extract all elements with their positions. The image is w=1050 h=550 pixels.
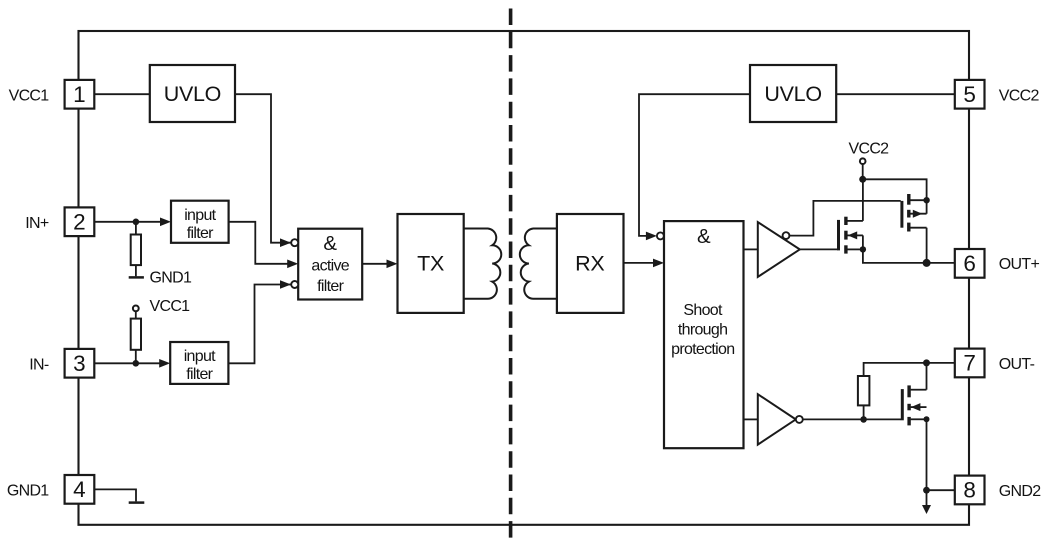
svg-text:8: 8 bbox=[963, 478, 976, 503]
arrowhead into shoot-through input B bbox=[653, 259, 664, 268]
ground arrow at GND2 bbox=[926, 490, 928, 506]
pin 7 bbox=[955, 349, 985, 378]
wire shoot block to buffer 1 bbox=[744, 248, 758, 250]
wire inverter output to NMOS Q3 gate bbox=[803, 418, 901, 420]
isolation barrier (dashed) bbox=[509, 9, 513, 541]
wire pin3 to input filter 2 bbox=[94, 362, 161, 364]
node PMOS source bbox=[923, 197, 929, 203]
transistor Q1 channel segments bbox=[844, 217, 847, 254]
node GND2 bbox=[923, 487, 930, 494]
transistor Q3 body arrow bbox=[911, 403, 921, 411]
wire GND2 node to pin8 bbox=[927, 489, 956, 491]
wire OUT+ node to pin6 bbox=[927, 262, 955, 264]
resistor R2 bbox=[131, 319, 141, 350]
wire buffer1 output to NMOS Q1 gate bbox=[800, 248, 837, 250]
svg-text:GND1: GND1 bbox=[150, 270, 192, 287]
wire node up to resistor R3 bbox=[863, 405, 865, 419]
arrowhead into AND filter input A bbox=[280, 238, 291, 247]
pin 4 bbox=[65, 475, 95, 504]
arrowhead into input filter 2 bbox=[159, 359, 170, 368]
transistor Q3 drain stub bbox=[911, 389, 927, 391]
svg-text:VCC2: VCC2 bbox=[999, 87, 1040, 104]
wire VCC1 to resistor R2 bbox=[135, 311, 137, 318]
transistor Q1 source stub bbox=[847, 248, 863, 250]
transistor Q3 source stub bbox=[911, 418, 927, 420]
pin 1 bbox=[65, 80, 95, 109]
bubble inverter B2 output bbox=[796, 416, 803, 423]
wire pin1 to UVLO1 bbox=[94, 93, 150, 95]
transistor Q2 source stub bbox=[910, 199, 926, 201]
wire R3 to OUT- rail bbox=[864, 363, 927, 376]
bubble AND filter input A bbox=[291, 239, 298, 246]
wire UVLO2 output elbow to shoot-through input A bbox=[639, 94, 750, 236]
bubble shoot-through input A bbox=[657, 232, 664, 239]
wire buffer1 inverted tap to PMOS gate bbox=[789, 201, 900, 236]
pin 3 bbox=[65, 349, 95, 378]
svg-text:Shoot: Shoot bbox=[683, 302, 723, 319]
node Q3 source bbox=[924, 416, 930, 422]
wire R1 to ground bbox=[135, 265, 137, 276]
svg-text:protection: protection bbox=[671, 341, 734, 358]
bubble inverted tap of buffer B1 bbox=[783, 232, 790, 239]
node Q1 source bbox=[860, 246, 866, 252]
input filter block F1 bbox=[171, 201, 229, 243]
wire R2 to pin3 node bbox=[135, 350, 137, 364]
ground GND1 symbol at pin4 bbox=[129, 501, 145, 504]
node pin3 junction bbox=[133, 360, 140, 367]
svg-text:TX: TX bbox=[417, 251, 444, 275]
transistor Q2 (PMOS) gate bar bbox=[900, 201, 903, 228]
resistor R1 bbox=[131, 235, 141, 266]
svg-text:VCC1: VCC1 bbox=[9, 87, 50, 104]
node OUT+ bbox=[923, 259, 931, 267]
wire Q1 source down to OUT+ rail bbox=[863, 249, 927, 263]
VCC1 pull-up terminal circle bbox=[133, 306, 139, 312]
transistor Q2 channel segments bbox=[907, 194, 910, 232]
wire UVLO2 to pin5 bbox=[836, 93, 955, 95]
pin 2 bbox=[65, 207, 95, 236]
svg-text:OUT-: OUT- bbox=[999, 356, 1035, 373]
AND active filter block G1 bbox=[298, 229, 362, 300]
ground GND1 symbol under R1 bbox=[129, 276, 144, 279]
wire junction to resistor R1 bbox=[135, 222, 137, 235]
svg-text:filter: filter bbox=[317, 278, 344, 295]
transformer primary coil bbox=[464, 229, 502, 299]
node gate/resistor junction bbox=[860, 416, 867, 423]
svg-text:IN+: IN+ bbox=[25, 215, 49, 232]
transistor Q3 body stub bbox=[911, 406, 927, 408]
svg-text:RX: RX bbox=[575, 251, 604, 275]
svg-text:1: 1 bbox=[73, 82, 86, 107]
svg-text:5: 5 bbox=[963, 82, 976, 107]
node pin2 junction bbox=[133, 219, 140, 226]
wire Q1 drain to VCC2 node bbox=[862, 179, 864, 221]
wire VCC2 terminal to node bbox=[862, 164, 864, 179]
transformer secondary coil bbox=[520, 229, 557, 299]
svg-text:filter: filter bbox=[186, 366, 213, 383]
UVLO block U1 bbox=[150, 65, 235, 122]
svg-text:input: input bbox=[184, 348, 216, 365]
IC package border bbox=[79, 31, 970, 525]
arrowhead into input filter 1 bbox=[160, 218, 171, 227]
wire Q3 drain to OUT- node bbox=[926, 363, 928, 390]
input filter block F2 bbox=[170, 342, 228, 384]
node VCC2 bbox=[859, 176, 866, 183]
svg-text:7: 7 bbox=[963, 351, 976, 376]
svg-text:3: 3 bbox=[73, 351, 86, 376]
svg-text:GND1: GND1 bbox=[7, 483, 49, 500]
wire Q3 source to GND2 node bbox=[926, 419, 928, 490]
wire shoot block to inverter B2 bbox=[744, 418, 758, 420]
pin 5 bbox=[955, 80, 985, 109]
transistor Q3 (low-side NMOS) gate bar bbox=[901, 389, 904, 420]
bubble AND filter input C bbox=[291, 281, 298, 288]
node OUT- bbox=[923, 359, 930, 366]
wire input filter2 output to AND filter input C bbox=[228, 285, 290, 364]
arrowhead into AND filter input B bbox=[287, 260, 298, 269]
svg-text:filter: filter bbox=[187, 225, 214, 242]
svg-text:6: 6 bbox=[963, 251, 976, 276]
svg-text:2: 2 bbox=[73, 209, 86, 234]
wire UVLO1 output elbow to AND filter input A bbox=[235, 94, 291, 243]
pin 8 bbox=[955, 476, 985, 505]
RX block bbox=[557, 214, 624, 313]
svg-text:IN-: IN- bbox=[29, 356, 49, 373]
svg-text:GND2: GND2 bbox=[999, 483, 1041, 500]
wire VCC2 node to PMOS source bbox=[863, 179, 927, 213]
wire pin2 to input filter 1 bbox=[94, 221, 162, 223]
VCC2 terminal circle bbox=[860, 158, 866, 164]
svg-text:UVLO: UVLO bbox=[764, 82, 821, 106]
wire pin4 to ground bbox=[94, 489, 136, 501]
wire Q2 drain to OUT+ node bbox=[926, 228, 928, 263]
transistor Q1 drain stub bbox=[847, 220, 863, 222]
svg-text:VCC1: VCC1 bbox=[150, 298, 191, 315]
transistor Q2 drain stub bbox=[910, 227, 926, 229]
inverter B2 (low side) bbox=[758, 394, 796, 444]
svg-text:active: active bbox=[311, 258, 349, 275]
shoot through protection block G2 bbox=[664, 221, 744, 448]
svg-text:OUT+: OUT+ bbox=[999, 256, 1040, 273]
wire OUT- node to pin7 bbox=[927, 362, 956, 364]
pin 6 bbox=[955, 249, 985, 278]
arrowhead into AND filter input C bbox=[280, 280, 291, 289]
wire Q1 body to source bbox=[862, 235, 864, 249]
transistor Q3 channel segments bbox=[907, 385, 910, 425]
transistor Q2 body arrow bbox=[913, 210, 923, 218]
resistor R3 bbox=[858, 376, 870, 405]
transistor Q1 body stub bbox=[847, 234, 863, 236]
svg-text:VCC2: VCC2 bbox=[849, 141, 890, 158]
arrowhead into shoot-through input A bbox=[646, 232, 657, 241]
wire input filter1 output to AND filter input B bbox=[229, 222, 290, 264]
transistor Q2 body stub bbox=[910, 213, 926, 215]
wire RX output to shoot-through block bbox=[624, 262, 656, 264]
buffer B1 (high side) bbox=[758, 222, 800, 277]
svg-text:UVLO: UVLO bbox=[164, 82, 221, 106]
svg-text:&: & bbox=[323, 232, 337, 255]
transistor Q1 body arrow bbox=[848, 231, 858, 239]
svg-text:input: input bbox=[184, 207, 216, 224]
TX block bbox=[398, 214, 464, 313]
svg-text:4: 4 bbox=[73, 477, 86, 502]
arrowhead into TX bbox=[387, 260, 398, 269]
wire AND filter output to TX bbox=[362, 263, 389, 265]
transistor Q1 (high-side NMOS) gate bar bbox=[837, 220, 840, 251]
svg-text:&: & bbox=[697, 225, 711, 248]
UVLO block U2 bbox=[750, 65, 836, 122]
svg-text:through: through bbox=[678, 321, 727, 338]
